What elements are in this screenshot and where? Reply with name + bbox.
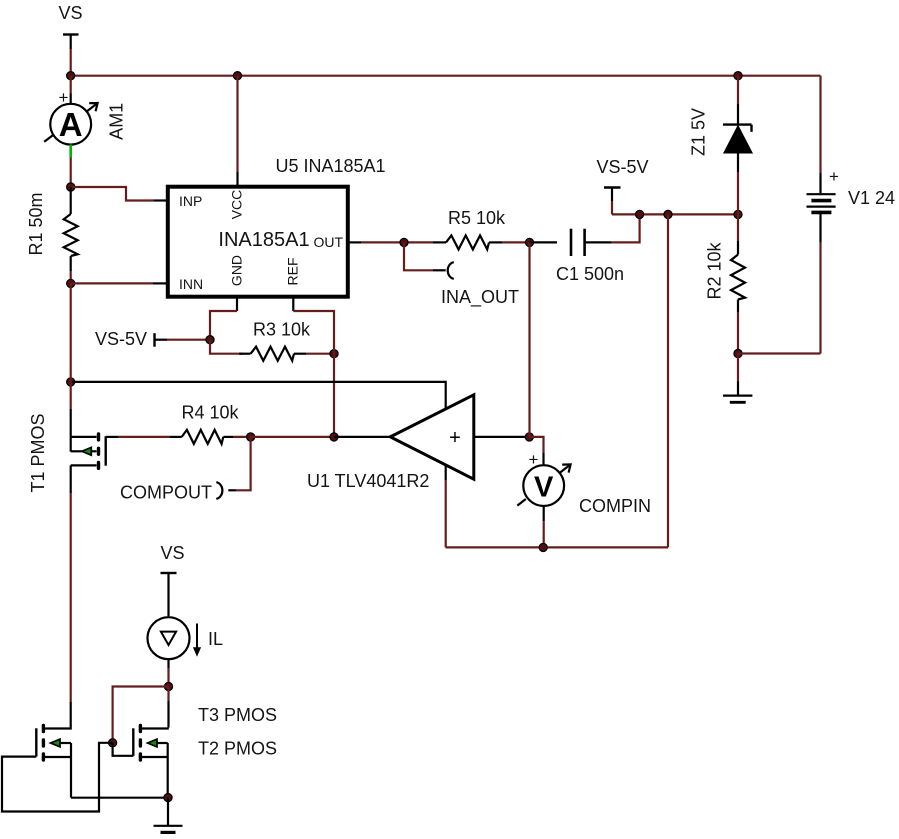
svg-text:T2 PMOS: T2 PMOS: [198, 739, 277, 759]
junction gate net T2/T3: [109, 739, 117, 747]
junction voltmeter / gnd rail: [539, 543, 547, 551]
resistor R1: [64, 187, 78, 271]
wire IL node to gates: [113, 687, 169, 743]
battery V1: [807, 76, 840, 354]
wire IL to T3: [167, 660, 169, 687]
svg-text:A: A: [59, 106, 83, 143]
svg-text:INA185A1: INA185A1: [218, 229, 309, 251]
svg-text:R5 10k: R5 10k: [448, 208, 506, 228]
svg-text:V: V: [534, 472, 554, 504]
op-amp U5 INA185A1 (current sense amp box): [168, 187, 348, 297]
resistor R3: [239, 347, 306, 361]
connector COMPOUT: [216, 482, 222, 499]
wire VS-5V rail: [612, 213, 738, 215]
pin U5 REF: [292, 297, 294, 311]
svg-text:VS: VS: [160, 543, 184, 563]
svg-text:INN: INN: [179, 276, 203, 292]
ground (right, below R2): [723, 354, 752, 403]
svg-text:VS: VS: [58, 3, 82, 23]
svg-text:OUT: OUT: [313, 234, 343, 250]
svg-text:+: +: [449, 427, 461, 449]
junction VS-5V / comparator gnd branch: [664, 210, 672, 218]
svg-text:U5 INA185A1: U5 INA185A1: [276, 156, 386, 176]
junction VS-5V / GND / R3: [206, 336, 214, 344]
power symbol VS-5V (left): [95, 329, 210, 349]
wire ammeter to R1 node: [70, 158, 72, 188]
wire VS-5V branch down: [667, 214, 669, 547]
junction VS rail / U5 VCC: [233, 72, 241, 80]
current source IL: [148, 617, 201, 659]
wire T2 gate loop: [2, 743, 113, 812]
svg-text:GND: GND: [229, 255, 245, 286]
svg-text:T3 PMOS: T3 PMOS: [198, 705, 277, 725]
wire node to R3: [210, 340, 243, 354]
wire INA_OUT tap: [404, 242, 446, 270]
wire R5 to C1 node: [502, 241, 530, 243]
svg-text:COMPIN: COMPIN: [579, 496, 651, 516]
power symbol VS-5V (upper): [596, 157, 648, 214]
transistor T1 PMOS: [71, 432, 106, 470]
voltmeter COMPIN: [517, 437, 570, 548]
junction IL / gate net: [164, 682, 172, 690]
wire T1 source down: [70, 465, 72, 727]
resistor R5: [433, 235, 502, 249]
op-amp U1 TLV4041R2 (comparator, points left): [390, 395, 474, 479]
wire comparator gnd rail: [446, 546, 668, 548]
wire node to U5 INP: [71, 187, 168, 201]
power symbol VS (middle): [160, 543, 184, 616]
transistor T3 PMOS: [113, 724, 168, 798]
zener diode Z1: [723, 76, 752, 215]
wire ammeter out (green): [69, 145, 72, 158]
svg-text:INA_OUT: INA_OUT: [441, 287, 519, 308]
wire T1 gate to R4: [106, 436, 170, 438]
wire R4 to COMPOUT node: [233, 436, 251, 438]
svg-text:IL: IL: [208, 629, 223, 649]
svg-text:R3 10k: R3 10k: [253, 319, 311, 339]
svg-text:Z1 5V: Z1 5V: [688, 108, 708, 156]
junction VS-5V / C1: [636, 210, 644, 218]
wire feedback to comparator top pin: [71, 382, 446, 409]
ammeter AM1: [44, 76, 126, 145]
junction R4 / COMPOUT: [247, 433, 255, 441]
svg-text:INP: INP: [179, 193, 202, 209]
svg-text:VCC: VCC: [229, 190, 245, 220]
wire T2 source to gnd node: [71, 797, 168, 799]
junction drain rail / comparator feedback: [67, 378, 75, 386]
pin U5 GND: [236, 297, 238, 311]
pin comparator bottom (V-): [445, 465, 447, 548]
wire R1 node down to T1: [70, 283, 72, 451]
svg-text:+: +: [829, 167, 839, 186]
connector INA_OUT: [448, 262, 454, 279]
wire VS top rail: [71, 75, 821, 77]
svg-text:U1 TLV4041R2: U1 TLV4041R2: [307, 471, 429, 491]
wire U5 GND to VS-5V: [210, 311, 237, 340]
junction R5 / C1 / comparator input: [525, 238, 533, 246]
wire R1 bottom: [70, 271, 72, 283]
junction VS rail / ammeter: [67, 72, 75, 80]
svg-text:V1 24: V1 24: [848, 188, 895, 208]
junction R3 / REF net: [330, 350, 338, 358]
svg-text:C1 500n: C1 500n: [556, 264, 624, 284]
transistor T2 PMOS: [36, 724, 71, 798]
junction R1 bottom / INN: [67, 279, 75, 287]
svg-text:COMPOUT: COMPOUT: [120, 482, 212, 502]
svg-text:REF: REF: [285, 258, 301, 286]
resistor R4: [170, 430, 233, 444]
svg-text:VS-5V: VS-5V: [95, 329, 147, 349]
power symbol VS (top): [58, 3, 82, 76]
junction T3 source / ground: [164, 794, 172, 802]
junction comparator output / REF net: [330, 433, 338, 441]
junction R2 / V1 minus: [734, 349, 742, 357]
svg-text:R1 50m: R1 50m: [26, 192, 46, 255]
wire C1 node down to comparator input: [528, 242, 530, 437]
wire U5 REF to R3 node: [293, 311, 334, 354]
svg-text:R2 10k: R2 10k: [704, 241, 724, 299]
wire node to comparator output: [251, 436, 334, 438]
wire node to U5 INN: [71, 282, 168, 284]
wire C1 to VS-5V node: [612, 214, 640, 242]
pin U5 OUT: [348, 241, 361, 243]
junction comparator input / C1 net: [525, 433, 533, 441]
resistor R2: [731, 214, 745, 353]
wire VCC to VS rail: [236, 76, 238, 187]
wire V1 minus to R2 bottom: [738, 352, 821, 354]
ground (bottom): [154, 798, 183, 833]
svg-text:T1 PMOS: T1 PMOS: [28, 413, 48, 492]
wire U5 OUT to R5: [361, 241, 433, 243]
wire IL node down to T3 drain: [167, 687, 169, 728]
junction VS rail / Z1: [734, 72, 742, 80]
junction VS-5V / Z1 / R2: [734, 210, 742, 218]
svg-text:AM1: AM1: [107, 103, 127, 140]
junction R1 top / INP: [67, 183, 75, 191]
capacitor C1: [530, 229, 612, 256]
wire to comparator apex: [334, 436, 391, 438]
wire COMPOUT tap: [228, 437, 250, 490]
svg-text:VS-5V: VS-5V: [596, 157, 648, 177]
junction OUT / INA_OUT tap: [400, 238, 408, 246]
svg-text:R4 10k: R4 10k: [181, 403, 239, 423]
wire R3 right: [306, 353, 334, 355]
wire REF net down to comparator output: [333, 354, 335, 437]
pin comparator plus input: [474, 436, 530, 438]
